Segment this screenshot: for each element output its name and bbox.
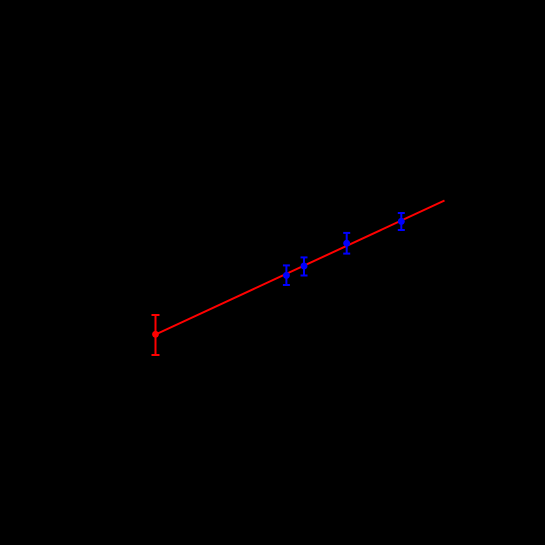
data point blue 2 [301, 263, 308, 270]
data point blue 4 [398, 218, 405, 225]
data point blue 3 [343, 240, 350, 247]
error bar blue point 3 [343, 233, 350, 254]
error bar red point [152, 315, 160, 355]
error bar blue point 4 [398, 213, 405, 230]
fitted regression line (red) [156, 201, 445, 335]
error bar blue point 2 [301, 257, 308, 275]
data point blue 1 [283, 272, 290, 279]
data point red [152, 331, 159, 338]
error bar blue point 1 [283, 265, 290, 285]
